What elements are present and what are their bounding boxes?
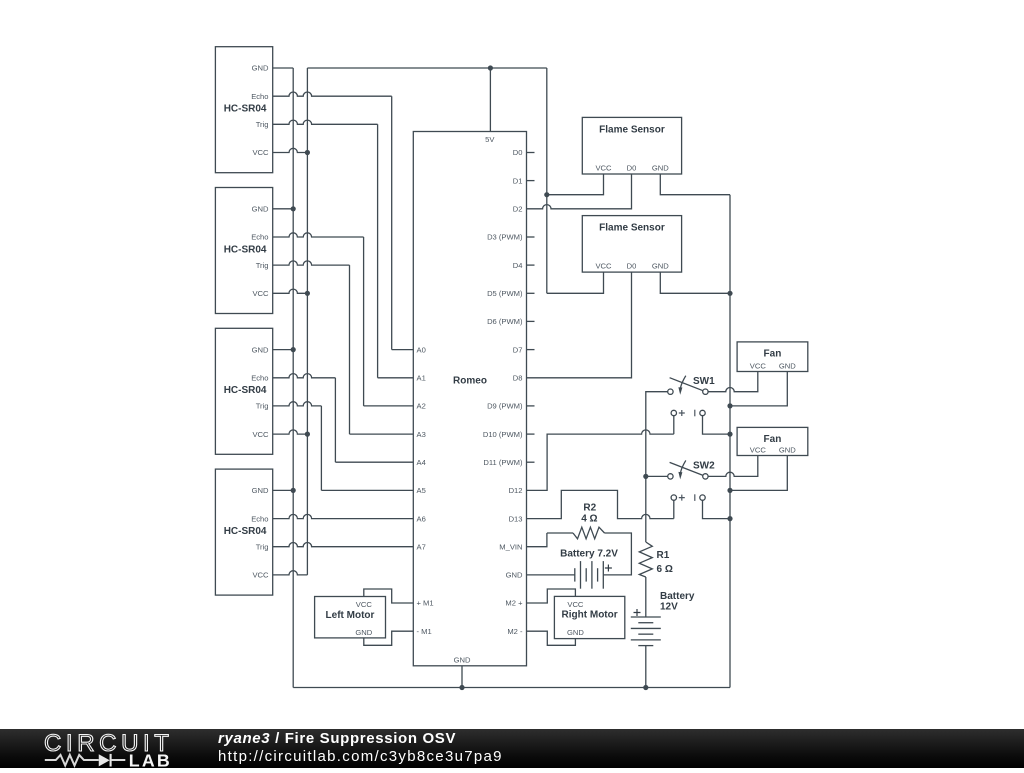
svg-text:Echo: Echo	[251, 514, 268, 523]
svg-text:D9 (PWM): D9 (PWM)	[487, 402, 523, 411]
svg-text:Fan: Fan	[764, 349, 782, 360]
svg-text:GND: GND	[506, 571, 523, 580]
wire SW1 left contact down	[646, 392, 668, 477]
wire Trig3 vertical	[320, 406, 322, 491]
svg-text:A0: A0	[417, 345, 426, 354]
svg-text:GND: GND	[567, 628, 584, 637]
svg-text:- M1: - M1	[417, 627, 432, 636]
fan module #1	[737, 342, 808, 372]
svg-text:D8: D8	[513, 374, 523, 383]
junction bottom rail / battery 12V	[643, 685, 648, 690]
pin stub D10	[527, 433, 535, 435]
svg-text:VCC: VCC	[252, 289, 269, 298]
wire battery 12V to bottom rail	[645, 646, 647, 688]
svg-text:Trig: Trig	[256, 542, 269, 551]
svg-text:VCC: VCC	[750, 361, 767, 370]
fan module #2	[737, 427, 808, 455]
junction ground bus / GND4	[291, 488, 296, 493]
svg-text:GND: GND	[652, 261, 669, 270]
wire Echo4 to A6	[273, 514, 414, 518]
wire HC-SR04#4 GND to ground bus	[273, 489, 294, 491]
ultrasonic sensor HC-SR04 #2	[215, 188, 272, 314]
ultrasonic sensor HC-SR04 #4	[215, 469, 272, 595]
svg-text:GND: GND	[779, 361, 796, 370]
wire HC-SR04#3 GND to ground bus	[273, 349, 294, 351]
pin stub D4	[527, 264, 535, 266]
wire SW1 coil- to right rail	[703, 416, 731, 434]
wire Trig3 to A5	[321, 489, 413, 491]
svg-text:GND: GND	[779, 445, 796, 454]
svg-text:VCC: VCC	[252, 430, 269, 439]
svg-text:A4: A4	[417, 458, 426, 467]
wire FS1 D0 to Romeo D2	[527, 174, 632, 209]
motor block Right Motor M2	[554, 596, 624, 638]
svg-text:Echo: Echo	[251, 233, 268, 242]
wire Trig2	[273, 261, 350, 265]
svg-text:A3: A3	[417, 430, 426, 439]
svg-text:Fan: Fan	[764, 434, 782, 445]
motor block Left Motor M1	[315, 597, 386, 638]
svg-text:Battery 7.2V: Battery 7.2V	[560, 549, 618, 560]
wire Trig3	[273, 402, 322, 406]
resistor R1 6ohm	[639, 542, 673, 577]
svg-text:D13: D13	[509, 514, 523, 523]
wire VCC3 to vcc bus	[273, 430, 308, 434]
CircuitLab logo	[0, 729, 220, 768]
wire Romeo M_VIN up to R2	[527, 533, 547, 547]
resistor R2 4ohm	[547, 503, 605, 539]
junction right rail / SW2 coil	[727, 516, 732, 521]
wire Echo2 vertical	[363, 237, 365, 406]
wire SW1 coil+ stem	[673, 416, 675, 434]
wire Fan2 VCC to SW2 contact	[708, 456, 758, 477]
wire HC-SR04#2 GND to ground bus	[273, 208, 294, 210]
wire Fan1 GND to right rail	[730, 372, 787, 406]
pin stub D9	[527, 405, 535, 407]
ground bus vertical	[292, 68, 294, 688]
svg-text:SW2: SW2	[693, 461, 715, 472]
svg-text:D0: D0	[513, 148, 523, 157]
junction 5V rail	[488, 65, 493, 70]
footer title text	[218, 730, 503, 766]
svg-text:M2 -: M2 -	[507, 627, 523, 636]
junction ground bus / GND2	[291, 206, 296, 211]
svg-text:D12: D12	[509, 486, 523, 495]
svg-text:Echo: Echo	[251, 374, 268, 383]
svg-text:A6: A6	[417, 514, 426, 523]
wire Echo1 to A0	[392, 349, 414, 351]
wire SW2 left contact	[646, 475, 668, 477]
svg-text:Flame Sensor: Flame Sensor	[599, 124, 665, 135]
svg-text:D11 (PWM): D11 (PWM)	[483, 458, 523, 467]
pin stub D7	[527, 349, 535, 351]
svg-text:Left Motor: Left Motor	[326, 610, 375, 621]
svg-text:Romeo: Romeo	[453, 376, 487, 387]
wire SW2 coil- to right rail	[703, 500, 731, 518]
wire Echo1 vertical	[391, 96, 393, 349]
vcc bus vertical	[306, 68, 308, 575]
svg-text:VCC: VCC	[750, 445, 767, 454]
wire SW rail down to R1	[645, 476, 647, 542]
svg-text:GND: GND	[652, 163, 669, 172]
wire FS2 VCC to 5V rail	[547, 272, 604, 293]
wire Echo2 to A2	[364, 405, 414, 407]
wire Echo2	[273, 233, 364, 237]
wire R2 to battery 7.2V positive	[603, 533, 631, 575]
svg-text:4 Ω: 4 Ω	[581, 514, 597, 525]
wire Fan1 VCC to SW1 contact	[708, 372, 758, 392]
svg-text:D6 (PWM): D6 (PWM)	[487, 317, 523, 326]
svg-text:D3 (PWM): D3 (PWM)	[487, 233, 523, 242]
svg-text:HC-SR04: HC-SR04	[224, 244, 267, 255]
junction right rail / FS2 GND	[727, 291, 732, 296]
bottom ground rail	[293, 687, 730, 689]
pin stub D6	[527, 320, 535, 322]
svg-text:Echo: Echo	[251, 92, 268, 101]
svg-text:D7: D7	[513, 345, 523, 354]
wire 5V pin	[489, 68, 491, 132]
svg-text:VCC: VCC	[595, 163, 612, 172]
svg-text:GND: GND	[454, 656, 471, 665]
wire VCC2 to vcc bus	[273, 289, 308, 293]
svg-text:+ M1: + M1	[417, 599, 434, 608]
svg-text:R1: R1	[657, 550, 670, 561]
wire 5V rail vertical to flame sensors	[546, 68, 548, 293]
svg-text:A7: A7	[417, 542, 426, 551]
junction bottom rail / Romeo GND	[459, 685, 464, 690]
svg-text:HC-SR04: HC-SR04	[224, 526, 267, 537]
svg-text:LAB: LAB	[129, 750, 172, 768]
wire VCC4 to vcc bus	[273, 571, 308, 575]
svg-text:D0: D0	[627, 261, 637, 270]
svg-text:VCC: VCC	[252, 148, 269, 157]
wire Fan2 GND to right rail	[730, 456, 787, 491]
svg-text:D10 (PWM): D10 (PWM)	[483, 430, 523, 439]
svg-text:R2: R2	[583, 503, 596, 514]
battery 7.2V B2	[560, 549, 618, 589]
wire Echo3 to A4	[335, 461, 413, 463]
svg-text:Trig: Trig	[256, 120, 269, 129]
svg-text:6 Ω: 6 Ω	[657, 564, 673, 575]
battery 12V B1	[631, 591, 695, 646]
wire FS1 GND to right rail	[660, 174, 730, 195]
wire Left Motor VCC to +M1	[364, 589, 414, 603]
svg-text:GND: GND	[252, 345, 269, 354]
svg-text:D2: D2	[513, 205, 523, 214]
junction right rail / Fan2 GND	[727, 488, 732, 493]
svg-text:SW1: SW1	[693, 376, 715, 387]
svg-text:A1: A1	[417, 374, 426, 383]
svg-text:D1: D1	[513, 176, 523, 185]
wire Romeo D12 up to SW1 coil+	[527, 430, 674, 490]
wire Right Motor VCC to M2+	[527, 589, 576, 603]
wire Trig1 to A1	[378, 377, 414, 379]
wire Romeo GND to battery 7.2V negative	[527, 574, 575, 576]
junction flame sensor1 VCC	[544, 192, 549, 197]
pin stub D3	[527, 236, 535, 238]
junction right rail / SW1 coil	[727, 432, 732, 437]
wire FS2 GND to right rail	[660, 272, 730, 293]
svg-text:VCC: VCC	[356, 600, 373, 609]
svg-text:D5 (PWM): D5 (PWM)	[487, 289, 523, 298]
svg-text:GND: GND	[252, 64, 269, 73]
svg-text:VCC: VCC	[567, 600, 584, 609]
svg-text:Trig: Trig	[256, 261, 269, 270]
flame sensor module #1	[582, 117, 681, 174]
wire Right Motor GND to M2-	[527, 631, 576, 645]
svg-text:GND: GND	[355, 628, 372, 637]
svg-text:12V: 12V	[660, 602, 678, 613]
pin stub D0	[527, 152, 535, 154]
wire Trig2 to A3	[350, 433, 414, 435]
svg-text:HC-SR04: HC-SR04	[224, 385, 267, 396]
resistor-diode squiggle	[45, 755, 99, 766]
wire Romeo D13 to SW2 coil+	[527, 490, 674, 518]
wire FS2 D0 to Romeo D8	[527, 272, 632, 378]
junction vcc bus / VCC1	[305, 150, 310, 155]
wire Romeo GND pin	[461, 666, 463, 688]
junction right rail / Fan1 GND	[727, 403, 732, 408]
wire SW2 coil+ stem	[673, 500, 675, 518]
svg-text:Battery: Battery	[660, 591, 695, 602]
wire R1 to battery 12V	[645, 577, 647, 617]
svg-text:M2 +: M2 +	[505, 599, 523, 608]
svg-text:GND: GND	[252, 486, 269, 495]
svg-text:GND: GND	[252, 205, 269, 214]
svg-text:M_VIN: M_VIN	[499, 542, 522, 551]
flame sensor module #2	[582, 216, 681, 273]
microcontroller board Romeo U1	[413, 132, 526, 666]
wire HC-SR04#1 GND to ground bus	[273, 67, 294, 69]
wire Echo1	[273, 92, 392, 96]
svg-text:Trig: Trig	[256, 402, 269, 411]
wire Echo3 vertical	[334, 378, 336, 462]
wire Left Motor GND to -M1	[364, 631, 414, 645]
svg-text:VCC: VCC	[252, 571, 269, 580]
wire top 5V rail	[307, 67, 546, 69]
wire Trig1 vertical	[377, 124, 379, 377]
junction ground bus / GND3	[291, 347, 296, 352]
wire Echo3	[273, 374, 336, 378]
pin stub D1	[527, 180, 535, 182]
ultrasonic sensor HC-SR04 #1	[215, 47, 272, 173]
ultrasonic sensor HC-SR04 #3	[215, 328, 272, 454]
svg-text:HC-SR04: HC-SR04	[224, 103, 267, 114]
svg-text:5V: 5V	[485, 135, 495, 144]
wire VCC1 to vcc bus	[273, 148, 308, 152]
svg-text:Right Motor: Right Motor	[562, 610, 618, 621]
relay switch SW1	[668, 376, 715, 417]
junction vcc bus / VCC2	[305, 291, 310, 296]
svg-text:D4: D4	[513, 261, 523, 270]
junction vcc bus / VCC3	[305, 432, 310, 437]
svg-text:Flame Sensor: Flame Sensor	[599, 223, 665, 234]
pin stub D11	[527, 461, 535, 463]
pin stub D5	[527, 292, 535, 294]
relay switch SW2	[668, 460, 715, 501]
wire Trig4 to A7	[273, 543, 414, 547]
junction SW contacts rail	[643, 474, 648, 479]
svg-text:A2: A2	[417, 402, 426, 411]
wire Trig1	[273, 120, 378, 124]
svg-text:D0: D0	[627, 163, 637, 172]
right ground rail vertical	[729, 195, 731, 688]
svg-text:A5: A5	[417, 486, 426, 495]
wire FS1 VCC to 5V rail	[547, 174, 604, 195]
svg-text:VCC: VCC	[595, 261, 612, 270]
wire Trig2 vertical	[349, 265, 351, 434]
